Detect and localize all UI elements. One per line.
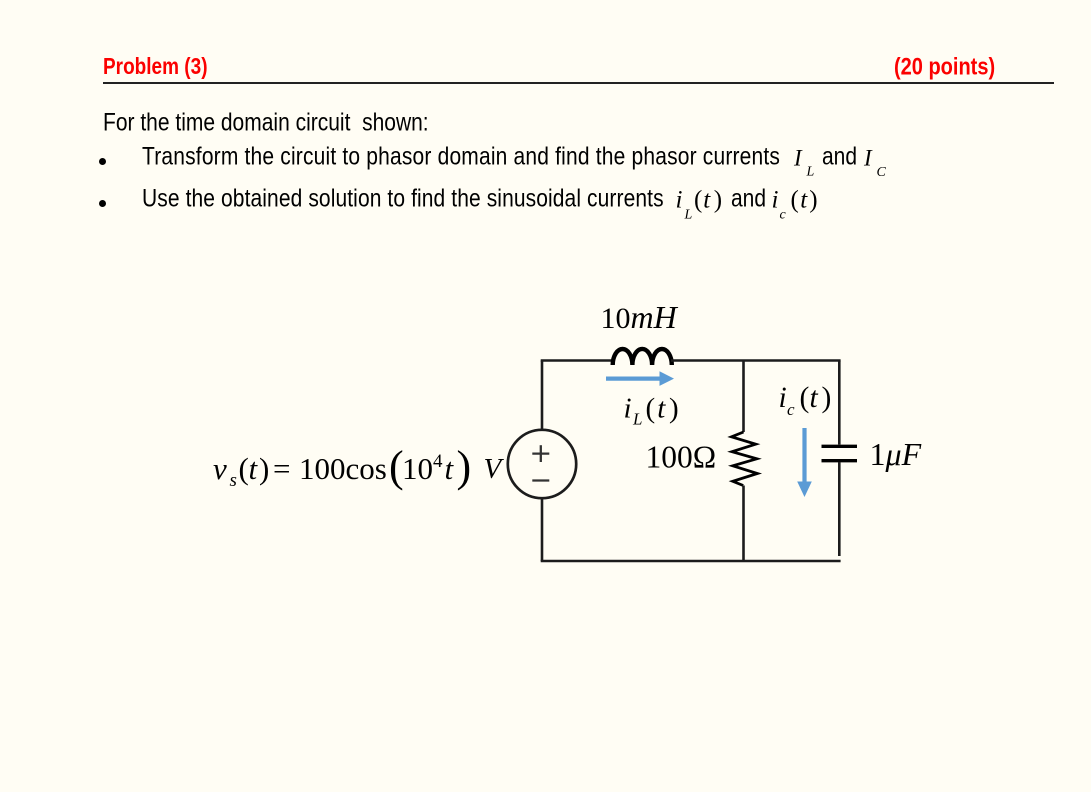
wire: middle branch vertical bottom — [742, 486, 745, 562]
wire: top horizontal left of inductor — [541, 359, 614, 362]
bullet 2 text roman part — [142, 185, 664, 214]
wire: left vertical bottom segment — [541, 498, 544, 561]
svg-text:I: I — [863, 146, 873, 171]
plus sign inside source — [532, 452, 549, 454]
svg-text:10mH: 10mH — [601, 299, 679, 335]
resistor R 100ohm zigzag — [732, 432, 758, 486]
phasor current symbol IL in bullet 1 — [793, 146, 887, 181]
wire: left vertical top segment — [541, 361, 544, 431]
svg-text:ic(t): ic(t) — [779, 382, 832, 419]
body line 1 — [103, 109, 429, 138]
svg-text:1μF: 1μF — [870, 436, 922, 472]
bullet 2 marker — [99, 200, 106, 207]
bullet 1 "and" between phasor symbols — [822, 143, 857, 172]
svg-text:C: C — [877, 165, 887, 180]
bullet 2 "and" between current symbols — [731, 185, 766, 214]
svg-text:ic(t): ic(t) — [772, 187, 818, 223]
svg-text:L: L — [806, 165, 815, 180]
capacitor C bottom plate — [822, 459, 858, 462]
heading underline — [103, 82, 1054, 84]
bullet 1 text roman part — [142, 143, 780, 172]
svg-text:104t: 104t — [402, 451, 455, 486]
svg-text:100Ω: 100Ω — [646, 440, 717, 475]
minus sign inside source — [532, 479, 549, 481]
wire: middle branch vertical top — [742, 361, 745, 433]
wire: right branch vertical bottom — [838, 462, 841, 556]
svg-text:iL(t): iL(t) — [676, 187, 723, 223]
svg-text:I: I — [793, 146, 803, 171]
svg-text:vs(t)=100cos: vs(t)=100cos — [213, 451, 387, 491]
svg-text:iL(t): iL(t) — [624, 393, 679, 429]
current arrow ic (blue) — [802, 428, 806, 484]
voltage source VS circle — [508, 430, 576, 498]
inductor L 10mH coil — [613, 349, 672, 365]
current arrow iL (blue) — [606, 377, 662, 381]
capacitor C top plate — [822, 445, 858, 448]
heading right: (20 points) — [894, 54, 995, 82]
heading left: Problem (3) — [103, 55, 208, 81]
bullet 1 marker — [99, 158, 106, 165]
wire: top horizontal right of inductor — [671, 359, 841, 362]
wire: bottom horizontal — [541, 560, 841, 563]
svg-text:V: V — [484, 453, 505, 485]
wire: right branch vertical top — [838, 361, 841, 445]
